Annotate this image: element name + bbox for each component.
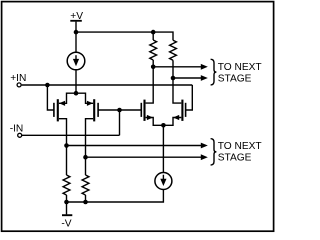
svg-text:TO NEXT: TO NEXT <box>218 62 262 73</box>
svg-text:-V: -V <box>61 218 71 229</box>
svg-text:STAGE: STAGE <box>218 74 252 85</box>
svg-text:+IN: +IN <box>10 73 26 84</box>
svg-text:STAGE: STAGE <box>218 153 252 164</box>
svg-text:TO NEXT: TO NEXT <box>218 141 262 152</box>
svg-text:+V: +V <box>70 11 83 22</box>
svg-text:-IN: -IN <box>10 123 24 134</box>
